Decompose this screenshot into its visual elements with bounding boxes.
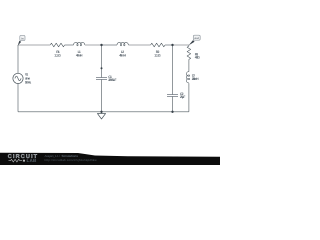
svg-text:25 µF: 25 µF [180, 95, 185, 99]
voltage source V1 [13, 73, 23, 83]
wire: ground stub [101, 112, 103, 114]
CircuitLab logo: plug square [23, 160, 25, 162]
svg-text:284.5 uF: 284.5 uF [108, 78, 116, 82]
svg-text:50 Hz: 50 Hz [25, 81, 32, 85]
junction: node A (top of C1) [100, 44, 102, 46]
capacitor C2 [167, 95, 178, 97]
resistor R3 [187, 46, 191, 59]
wire: C2 branch upper [172, 45, 174, 95]
junction: C2 bottom on bottom rail [171, 111, 173, 113]
wire: top rail, left corner to R1 [18, 44, 50, 46]
junction: ground node on bottom rail [100, 111, 102, 113]
wire: C1 branch lower [101, 80, 103, 112]
wire: R1 to L1 [65, 44, 74, 46]
wire: R3 to L3 [188, 59, 190, 71]
junction: node B (top of C2) [171, 44, 173, 46]
flag pointer (out) [189, 40, 195, 45]
inductor L3 [186, 72, 189, 83]
wire: node A to L2 [102, 44, 118, 46]
junction: wire joint on C1 branch [101, 67, 103, 69]
wire: bottom rail [18, 111, 189, 113]
svg-text:48 mH: 48 mH [119, 54, 126, 58]
node flag IN [20, 35, 25, 40]
CircuitLab logo: resistor zigzag [9, 159, 23, 162]
wire: V1 bottom to bottom rail [17, 84, 19, 112]
svg-text:1.1 Ω: 1.1 Ω [154, 54, 161, 58]
resistor R2 [151, 43, 165, 47]
footer bar [0, 153, 220, 165]
ground [97, 114, 105, 120]
svg-text:48 mH: 48 mH [76, 54, 83, 58]
wire: node B to top-right corner [173, 45, 189, 46]
svg-text:48 Ω: 48 Ω [195, 56, 200, 60]
capacitor C1 [96, 78, 107, 80]
svg-text:in: in [21, 37, 24, 40]
inductor L1 [74, 43, 85, 46]
resistor R1 [50, 43, 64, 47]
wire: C1 branch upper [101, 45, 103, 78]
flag pointer (in) [18, 41, 22, 46]
inductor L2 [117, 43, 128, 46]
wire: R2 to node B [165, 44, 173, 46]
svg-text:1.1 Ω: 1.1 Ω [54, 54, 61, 58]
wire: C2 branch lower [172, 97, 174, 112]
node flag OUT [193, 35, 200, 40]
svg-text:out: out [195, 37, 200, 40]
svg-text:200 mH: 200 mH [192, 77, 199, 81]
svg-text:http://circuitlab.com/c/5j55uh: http://circuitlab.com/c/5j55uh4pd6kw [45, 158, 98, 162]
wire: left vertical, corner to V1 top [17, 45, 19, 73]
wire: L2 to R2 [128, 44, 150, 46]
wire: L1 to node A [85, 44, 102, 46]
wire: L3 to bottom rail [188, 83, 190, 112]
svg-text:LAB: LAB [27, 158, 37, 163]
